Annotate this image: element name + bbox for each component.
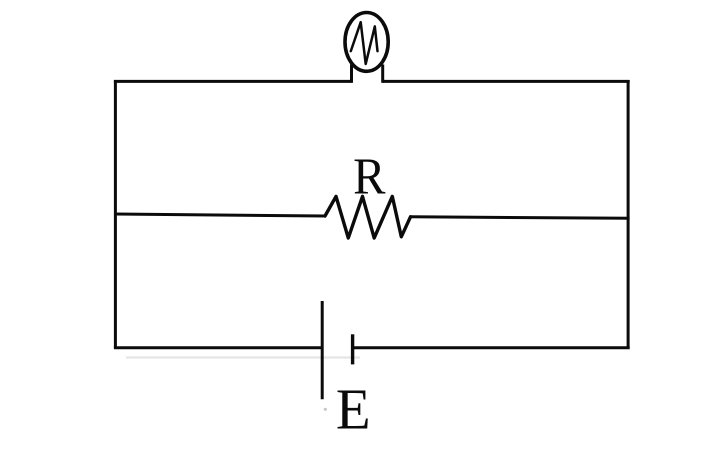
svg-text:E: E bbox=[336, 378, 371, 442]
wire bottom-left segment bbox=[114, 346, 322, 349]
meter M1 symbol M bbox=[351, 22, 378, 64]
wire meter right stub bbox=[381, 65, 384, 83]
resistor R1 zigzag bbox=[325, 196, 411, 238]
wire right vertical bbox=[627, 80, 630, 348]
wire bottom-right segment bbox=[353, 346, 630, 349]
wire top-right segment bbox=[383, 80, 630, 83]
wire middle-right segment bbox=[411, 217, 630, 219]
wire left vertical bbox=[114, 80, 117, 348]
wire middle-left segment bbox=[114, 214, 325, 216]
meter M1 body bbox=[345, 13, 388, 72]
wire top-left segment bbox=[114, 80, 352, 83]
scan artifact speck below battery plate bbox=[324, 408, 327, 411]
battery E short plate bbox=[351, 334, 354, 364]
battery E long plate bbox=[321, 301, 324, 399]
svg-text:R: R bbox=[353, 147, 386, 205]
wire meter left stub bbox=[350, 65, 353, 83]
scan artifact faint line under bottom wire bbox=[126, 356, 360, 358]
